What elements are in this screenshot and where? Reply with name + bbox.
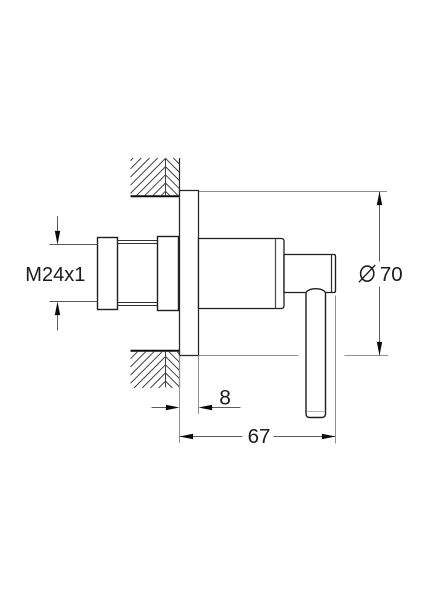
escutcheon wall plate [180,191,199,356]
extension line bottom seg A [199,355,299,357]
valve body in wall [158,237,179,311]
extension line plate left below [179,356,181,444]
wall face line above plate [179,158,181,196]
dim 8 left tail with arrow [152,407,167,409]
svg-text:70: 70 [380,263,403,286]
sleeve end ring line [275,239,277,308]
threaded tube M24 [118,241,158,306]
dia70 dimension line lower [379,287,381,356]
M24x1 arrow line bottom [57,314,59,330]
extension line top (plate top to dia dim) [180,191,388,193]
wall hatch bottom-right (\ lines) [166,352,180,388]
trim sleeve with end cap [199,239,285,309]
wall hatch top-left (rough wall, / lines) [131,158,166,195]
union nut [98,238,118,310]
extension line plate right below [198,356,200,415]
wall face line below plate [179,351,181,388]
bottom wall cut edge (thick) [131,350,180,352]
M24x1 extension line bottom [50,301,98,303]
lever handle [306,293,326,418]
svg-text:67: 67 [248,425,271,448]
dim 67 line left segment [180,436,243,438]
label dia symbol [361,266,374,281]
dia70 dimension line upper [379,192,381,262]
top wall cut edge (thick) [131,195,180,197]
extension line bottom seg B [345,355,389,357]
wall hatch bottom-left (/ lines) [131,352,166,388]
wall hatch spine top [165,158,167,195]
handle arm cap inner line [331,255,333,292]
M24x1 arrow line top [57,216,59,232]
wall hatch top-right (finish layer, \ lines) [166,158,180,195]
lever end faint line [307,411,325,413]
extension line handle tip [335,296,337,444]
wall hatch spine bottom [165,352,167,387]
svg-text:M24x1: M24x1 [25,264,85,286]
svg-text:8: 8 [219,386,231,409]
dim 67 line right segment [274,436,336,438]
dim 8 right tail with arrow [212,407,241,409]
M24x1 extension line top [50,244,98,246]
handle arm with end cap [284,255,336,293]
